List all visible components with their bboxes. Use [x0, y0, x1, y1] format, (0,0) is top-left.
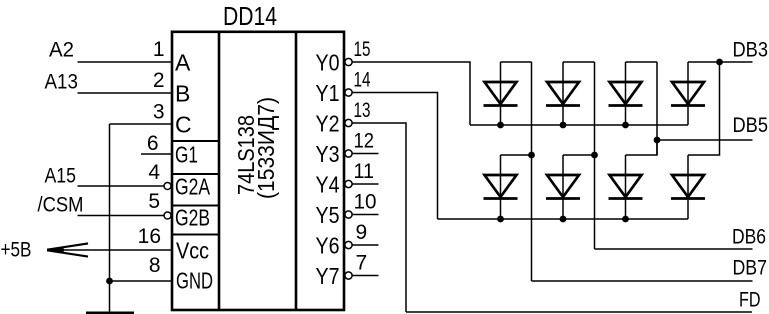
IC DD14 inner column line right	[295, 32, 298, 310]
svg-text:DB3: DB3	[733, 39, 769, 62]
svg-text:4: 4	[148, 161, 160, 184]
diode VD4 top row	[671, 62, 705, 125]
inversion bubble pin 5	[164, 212, 171, 219]
svg-text:G2B: G2B	[175, 204, 210, 230]
diode VD6 bottom row	[546, 155, 595, 219]
svg-text:GND: GND	[176, 268, 213, 294]
wire pin 3 input	[110, 123, 173, 125]
wire Y6 stub	[352, 244, 379, 246]
svg-text:A15: A15	[45, 165, 77, 188]
wire Y2 output to FD	[352, 123, 407, 312]
separator / overline of G2B	[172, 205, 219, 207]
inversion bubble Y5	[345, 211, 352, 218]
inversion bubble pin 4	[164, 183, 171, 190]
svg-text:2: 2	[153, 69, 165, 92]
junction dot DB3	[716, 59, 723, 66]
svg-text:DB6: DB6	[732, 226, 766, 249]
svg-text:3: 3	[153, 101, 165, 124]
svg-text:DD14: DD14	[223, 1, 277, 31]
wire Y7 stub	[352, 275, 379, 277]
junction dot VD2 cathode	[560, 122, 567, 129]
IC DD14 body outline	[172, 32, 344, 310]
svg-text:DB7: DB7	[733, 257, 768, 280]
svg-text:14: 14	[354, 69, 371, 92]
svg-text:13: 13	[354, 99, 371, 122]
wire Y0 output	[352, 62, 471, 125]
wire DB7 line	[532, 280, 753, 282]
svg-text:8: 8	[149, 254, 161, 277]
svg-text:Y7: Y7	[316, 263, 340, 289]
+5V arrow barb upper	[48, 243, 88, 249]
diode VD5 bottom row	[484, 155, 532, 219]
inversion bubble Y4	[345, 180, 352, 187]
svg-text:A13: A13	[45, 71, 79, 94]
junction dot VD6 cathode	[560, 216, 567, 223]
inversion bubble Y6	[345, 241, 352, 248]
svg-text:(1533ИД7): (1533ИД7)	[253, 97, 279, 199]
ground symbol	[86, 312, 134, 314]
junction dot DB5	[654, 137, 661, 144]
diode VD7 bottom row	[609, 140, 658, 219]
wire Y0 cathode bus top row	[470, 124, 688, 126]
diode VD3 top row	[609, 62, 658, 125]
wire FD line	[406, 311, 752, 313]
svg-text:Y0: Y0	[316, 49, 340, 75]
svg-text:7: 7	[356, 252, 368, 275]
svg-text:10: 10	[354, 191, 377, 214]
svg-text:C: C	[175, 111, 192, 137]
wire pin 5 input	[78, 215, 165, 217]
wire Y3 stub	[352, 153, 379, 155]
svg-text:11: 11	[354, 160, 375, 183]
wire riser DB6 column	[594, 62, 596, 249]
svg-text:Y1: Y1	[316, 80, 340, 106]
diode VD8 bottom row	[671, 62, 720, 219]
IC DD14 inner column line left	[218, 32, 221, 310]
wire DB3 line	[688, 61, 753, 63]
svg-text:FD: FD	[739, 289, 761, 312]
wire pin 8 GND	[110, 280, 173, 282]
svg-text:Y3: Y3	[316, 141, 340, 167]
wire pin 16 Vcc input	[47, 249, 172, 251]
+5V arrow tip shaft	[47, 249, 64, 252]
svg-text:Y2: Y2	[316, 110, 340, 136]
svg-text:Y4: Y4	[316, 171, 340, 197]
svg-text:/CSM: /CSM	[38, 194, 84, 217]
svg-text:12: 12	[354, 130, 375, 153]
junction dot VD1 cathode	[497, 122, 504, 129]
inversion bubble Y2	[345, 119, 352, 126]
svg-text:9: 9	[356, 221, 368, 244]
svg-text:A2: A2	[49, 39, 74, 62]
svg-text:G1: G1	[175, 141, 198, 167]
junction dot VD5 cathode	[497, 216, 504, 223]
svg-text:+5B: +5B	[1, 239, 32, 262]
wire Y5 stub	[352, 214, 379, 216]
wire pin 2 input	[78, 92, 173, 94]
separator above Vcc cell	[172, 234, 219, 236]
svg-text:16: 16	[138, 225, 161, 248]
wire riser DB5 column	[656, 62, 658, 155]
inversion bubble Y7	[345, 272, 352, 279]
+5V arrow barb lower	[48, 250, 88, 256]
svg-text:Y5: Y5	[316, 202, 340, 228]
wire Y4 stub	[352, 183, 379, 185]
svg-text:A: A	[175, 49, 191, 75]
svg-text:15: 15	[354, 38, 371, 61]
inversion bubble Y3	[345, 150, 352, 157]
inversion bubble Y0	[345, 58, 352, 65]
wire C to ground vertical	[109, 124, 111, 312]
junction dot riser DB7 anode join	[528, 152, 535, 159]
svg-text:G2A: G2A	[175, 173, 210, 199]
wire pin 4 input	[78, 185, 165, 187]
diode VD2 top row	[546, 62, 595, 125]
svg-text:Vcc: Vcc	[176, 237, 209, 263]
svg-text:Y6: Y6	[316, 232, 340, 258]
wire Y1 output	[352, 93, 438, 220]
junction dot VD7 cathode	[622, 216, 629, 223]
svg-text:DB5: DB5	[733, 114, 769, 137]
svg-text:B: B	[175, 80, 190, 106]
wire DB6 line	[595, 248, 753, 250]
svg-text:5: 5	[148, 190, 160, 213]
wire pin 6 stub	[141, 153, 172, 155]
separator below C cell	[172, 140, 219, 142]
wire pin 1 input	[78, 61, 173, 63]
svg-text:1: 1	[153, 38, 165, 61]
inversion bubble Y1	[345, 89, 352, 96]
junction dot riser DB6 anode join	[591, 152, 598, 159]
svg-text:6: 6	[147, 132, 159, 155]
wire DB5 line	[657, 139, 753, 141]
junction dot GND wire	[106, 278, 113, 285]
wire riser DB7 column	[531, 62, 533, 281]
diode VD1 top row	[484, 62, 532, 125]
junction dot VD3 cathode	[622, 122, 629, 129]
wire Y1 cathode bus bottom row	[438, 218, 689, 220]
separator / overline of G2A	[172, 173, 219, 175]
